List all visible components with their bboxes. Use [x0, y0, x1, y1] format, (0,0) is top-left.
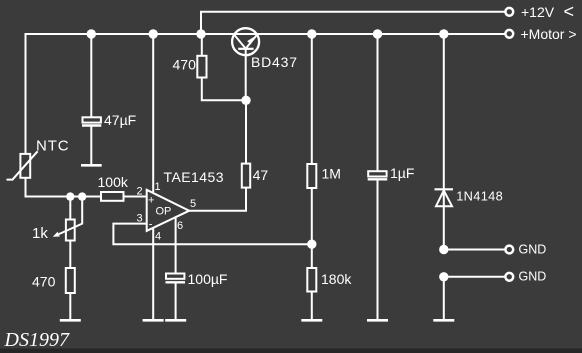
- capacitor C 47uF minus plate: [82, 124, 101, 126]
- ground under 47uF: [81, 164, 102, 167]
- transistor Q1 collector diagonal: [234, 34, 246, 48]
- svg-text:OP: OP: [156, 206, 172, 218]
- diode D1 cathode bar: [435, 188, 454, 190]
- wire 470 to ground: [69, 293, 71, 319]
- wire 1M lower lead: [311, 188, 313, 244]
- wire pot bottom to 470: [69, 241, 71, 269]
- wire 47uF top: [90, 34, 92, 117]
- thermistor NTC diagonal: [7, 151, 38, 179]
- ground under 100uF: [165, 319, 186, 322]
- wire 47uF bottom: [90, 127, 92, 165]
- transistor Q1 emitter diagonal: [246, 34, 258, 48]
- wire 180k to ground: [311, 292, 313, 320]
- node on rail at 1M: [307, 29, 316, 38]
- svg-text:NTC: NTC: [36, 138, 70, 155]
- ground under 470: [60, 319, 81, 322]
- ground under pin4: [143, 319, 164, 322]
- svg-text:4: 4: [155, 231, 161, 243]
- capacitor C 47uF plus plate: [83, 117, 101, 122]
- svg-text:100k: 100k: [98, 174, 129, 190]
- svg-text:100µF: 100µF: [188, 271, 228, 287]
- resistor R 47: [242, 164, 250, 188]
- node GND2: [439, 272, 448, 281]
- resistor R 180k: [307, 268, 316, 292]
- wire diode lower lead: [443, 277, 445, 319]
- wire 470 top-resistor upper lead: [201, 34, 203, 56]
- transistor Q1 emitter arrow: [247, 37, 254, 44]
- diode D1 triangle: [436, 191, 452, 207]
- resistor R 100k: [101, 192, 124, 201]
- node divider/pot: [66, 192, 74, 200]
- svg-text:1µF: 1µF: [390, 165, 414, 181]
- node wiper: [78, 192, 86, 200]
- capacitor C 1uF minus plate: [368, 178, 388, 180]
- resistor R 470 (base pull-up): [197, 56, 206, 78]
- svg-text:1: 1: [155, 181, 161, 193]
- wire 47 upper lead: [245, 100, 247, 163]
- potentiometer wiper arrowhead: [53, 232, 60, 237]
- potentiometer R 1k body: [66, 220, 75, 241]
- resistor R 470 (divider): [66, 268, 75, 293]
- wire 47 lower lead to op-amp output: [189, 188, 246, 211]
- capacitor C 1uF plus plate: [368, 171, 386, 176]
- svg-text:1M: 1M: [322, 166, 341, 182]
- wire 470 bottom lead to base node: [202, 78, 246, 101]
- transistor Q1 BD437 circle: [232, 28, 259, 55]
- ground under 180k: [301, 319, 322, 322]
- node on rail at 47uF: [87, 29, 96, 38]
- wire pin3 feedback loop: [113, 224, 311, 245]
- wire to GND1 terminal: [444, 249, 505, 251]
- svg-text:DS1997: DS1997: [4, 329, 70, 351]
- terminal GND2: [505, 273, 513, 281]
- wire +12V rail: [201, 12, 505, 34]
- wire to GND2 terminal: [444, 276, 505, 278]
- svg-text:470: 470: [173, 57, 197, 73]
- wire pin4 to ground: [152, 228, 154, 319]
- svg-text:BD437: BD437: [251, 54, 298, 70]
- wire pin6 to 100uF: [175, 217, 177, 273]
- wire base lead: [245, 49, 247, 101]
- potentiometer wiper wire: [56, 197, 83, 236]
- svg-text:+Motor >: +Motor >: [521, 26, 577, 42]
- wire diode top lead: [443, 34, 445, 250]
- svg-text:TAE1453: TAE1453: [164, 169, 224, 185]
- svg-text:GND: GND: [519, 270, 547, 284]
- wire main +12V/+Motor rail: [26, 33, 505, 35]
- node on rail at +12V drop: [196, 29, 205, 38]
- terminal +12V: [505, 8, 513, 16]
- resistor R 1M: [307, 164, 316, 188]
- wire 180k upper lead: [311, 244, 313, 268]
- ground under diode: [433, 319, 454, 322]
- svg-text:<: <: [564, 2, 575, 22]
- wire pot top lead: [69, 197, 71, 221]
- wire op-amp pin1 from rail: [152, 34, 154, 192]
- wire NTC top: [25, 33, 27, 154]
- svg-text:5: 5: [190, 198, 196, 210]
- svg-text:1k: 1k: [32, 225, 48, 242]
- thermistor NTC body: [20, 154, 30, 178]
- wire 1M upper lead: [311, 34, 313, 164]
- node GND1: [439, 245, 448, 254]
- op-amp U1 triangle: [147, 190, 190, 231]
- svg-text:47: 47: [253, 167, 269, 183]
- wire 1uF top lead: [377, 34, 379, 171]
- svg-text:1N4148: 1N4148: [456, 189, 503, 204]
- terminal +Motor: [505, 30, 513, 38]
- terminal GND1: [505, 246, 513, 254]
- transistor Q1 base bar: [238, 48, 253, 50]
- svg-text:6: 6: [177, 220, 183, 232]
- capacitor C 100uF minus plate: [166, 281, 186, 283]
- node feedback divider: [307, 240, 316, 249]
- wire 100uF to ground: [175, 283, 177, 319]
- node on rail at 1uF: [373, 29, 382, 38]
- ground under 1uF: [367, 319, 388, 322]
- wire 100k to pin2: [124, 196, 147, 198]
- wire 1uF to ground: [377, 180, 379, 319]
- svg-text:47µF: 47µF: [104, 112, 136, 128]
- node on rail at diode: [439, 29, 448, 38]
- svg-text:470: 470: [32, 274, 56, 290]
- svg-text:+: +: [148, 195, 154, 207]
- node on rail at pin1: [149, 29, 158, 38]
- svg-text:+12V: +12V: [521, 4, 555, 20]
- capacitor C 100uF plus plate: [166, 274, 184, 279]
- svg-text:GND: GND: [519, 242, 547, 256]
- svg-text:180k: 180k: [321, 271, 352, 287]
- node base/47 junction: [241, 96, 250, 105]
- wire NTC bottom to divider: [26, 178, 103, 197]
